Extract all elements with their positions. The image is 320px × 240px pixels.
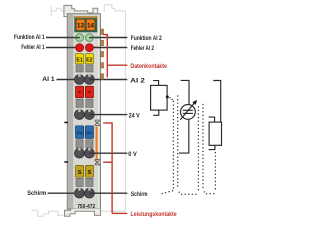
wire into LED centers <box>76 37 80 39</box>
power jumper contact lower right <box>95 160 101 165</box>
svg-text:Funktion AI 1: Funktion AI 1 <box>14 34 45 41</box>
wire Fehler AI 2 <box>89 47 127 49</box>
data contact tab 1 <box>101 29 104 35</box>
LED Fehler AI 2 (red) <box>85 44 93 52</box>
data contact tab 3 <box>101 51 104 57</box>
terminal Schirm right <box>85 188 95 198</box>
shield junction dot on symbol 1 <box>166 95 169 98</box>
svg-text:S: S <box>87 170 91 176</box>
orange latch strip on right edge <box>96 127 98 161</box>
terminal Schirm left <box>75 188 85 198</box>
terminal cap E2 (yellow) <box>85 54 93 64</box>
clamp opening 24V right <box>86 99 93 107</box>
svg-text:E1: E1 <box>76 57 82 63</box>
shield dotted line pair at symbol 3 <box>203 105 215 194</box>
wire Schirm left <box>48 192 80 194</box>
wire 0 V <box>89 152 127 154</box>
ghost outline of right neighbour module (top profile + side) <box>101 5 126 212</box>
data contact tab 5 <box>101 74 104 80</box>
terminal 24V right <box>85 110 95 120</box>
arrowhead of symbol 2 <box>192 100 197 105</box>
wire AI 1 <box>57 79 80 81</box>
module body <box>67 14 100 209</box>
sensor symbol 3: 4-wire transducer (AI 2 / 24 V / 0 V) <box>209 81 222 150</box>
svg-text:Datenkontakte: Datenkontakte <box>130 63 167 70</box>
data contact tab 2 <box>101 40 104 46</box>
svg-text:13: 13 <box>77 22 84 29</box>
svg-text:AI 1: AI 1 <box>42 76 55 83</box>
LED Fehler AI 1 (red) <box>76 44 84 52</box>
wire Schirm right <box>89 192 127 194</box>
ghost outline of left neighbour module (top fragment) <box>51 6 64 17</box>
terminal cap 0V left (blue) <box>76 126 84 139</box>
sensor symbol 2: adjustable transmitter between AI 2 and 0 V <box>179 80 195 153</box>
clamp opening 24V left <box>76 99 83 107</box>
sensor symbol 1: 2-wire transducer between AI 2 and 24 V <box>151 81 168 116</box>
wire 24 V <box>89 114 127 116</box>
svg-text:AI 2: AI 2 <box>130 77 145 84</box>
contact 13 <box>76 19 84 30</box>
svg-text:Fehler AI 2: Fehler AI 2 <box>131 45 154 52</box>
wire Funktion AI 2 <box>89 37 127 39</box>
terminal 24V left <box>75 110 85 120</box>
svg-text:Schirm: Schirm <box>27 190 46 197</box>
Datenkontakte red bracket <box>103 34 127 78</box>
terminal cap E1 (yellow) <box>76 54 84 64</box>
module top profile <box>64 5 98 16</box>
power jumper contact upper left tick <box>64 122 68 124</box>
svg-text:E2: E2 <box>86 57 92 63</box>
shield dotted line from symbol 1 <box>160 102 173 195</box>
module left bus strip <box>68 14 73 208</box>
terminal cap 0V right (blue) <box>85 126 93 139</box>
svg-text:Schirm: Schirm <box>131 191 148 198</box>
dark green frame around contacts 13/14 <box>74 18 97 32</box>
power jumper contact upper right <box>95 120 101 125</box>
terminal AI 2 <box>85 75 95 85</box>
module bottom foot <box>65 209 101 216</box>
LED Funktion AI 1 (green) <box>76 34 84 42</box>
svg-text:S: S <box>78 170 82 176</box>
terminal cap +24V left (red) <box>76 86 84 98</box>
clamp opening AI 1 <box>76 65 83 72</box>
terminal cap S left (shield, dark yellow) <box>76 165 84 177</box>
terminal cap S right (shield, dark yellow) <box>85 165 93 177</box>
svg-text:0 V: 0 V <box>128 151 137 158</box>
contact 14 <box>86 19 94 30</box>
svg-text:24 V: 24 V <box>129 112 140 119</box>
clamp opening 0V right <box>86 140 93 148</box>
gold contact strip <box>74 16 98 18</box>
terminal 0V right <box>85 148 95 158</box>
svg-text:Fehler AI 1: Fehler AI 1 <box>21 44 44 51</box>
clamp opening Schirm left <box>76 178 83 186</box>
data contact tab 4 <box>101 63 104 69</box>
svg-text:14: 14 <box>87 22 94 29</box>
terminal AI 1 <box>75 75 85 85</box>
svg-text:0V: 0V <box>87 130 94 135</box>
clamp opening Schirm right <box>86 178 93 186</box>
terminal cap +24V right (red) <box>85 86 93 98</box>
terminal 0V left <box>75 148 85 158</box>
LED Funktion AI 2 (green) <box>86 34 94 42</box>
light groove inside right edge <box>98 15 99 209</box>
svg-text:Leistungskontakte: Leistungskontakte <box>131 211 177 218</box>
svg-text:Funktion AI 2: Funktion AI 2 <box>131 35 162 42</box>
shield dotted line pair at symbol 2 <box>178 96 199 194</box>
clamp opening 0V left <box>76 140 83 148</box>
svg-text:0V: 0V <box>77 130 84 135</box>
wire Fehler AI 1 <box>46 47 80 49</box>
Leistungskontakte red bracket <box>103 122 127 213</box>
wire AI 2 <box>89 79 127 81</box>
ghost outline of left neighbour module (bottom foot fragment) <box>31 210 64 216</box>
power jumper contact lower left tick <box>64 161 68 163</box>
clamp opening AI 2 <box>86 65 93 72</box>
wire Funktion AI 1 <box>46 37 80 39</box>
